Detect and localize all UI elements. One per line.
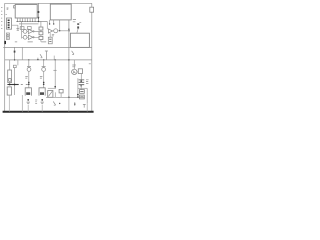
tick left border bbox=[6, 13, 7, 15]
wire x87 bbox=[86, 88, 88, 103]
wire opamp out bbox=[27, 31, 39, 37]
wire B3 stub bbox=[77, 29, 78, 33]
node dot B bbox=[38, 21, 40, 23]
resistor R2 bbox=[39, 32, 43, 35]
wire stub x22 bbox=[21, 47, 23, 60]
wire left border bbox=[4, 3, 6, 111]
pin 2 J1 bbox=[8, 22, 10, 24]
label t bbox=[83, 104, 86, 107]
pin 4 J1 bbox=[8, 27, 10, 29]
label q2 bbox=[25, 76, 28, 78]
wire mid vertical bus bbox=[68, 20, 70, 97]
transistor Q6 tick bbox=[13, 65, 16, 67]
connector J1 bbox=[7, 18, 12, 29]
pins U1 bottom bbox=[18, 18, 35, 21]
resistor R3 bbox=[39, 36, 43, 39]
wire opamp feed bbox=[22, 21, 24, 38]
label 11 bbox=[73, 20, 81, 23]
resistor R8 bottom-left bbox=[7, 87, 11, 95]
lamp L1 bbox=[9, 60, 11, 70]
wire x22 low bbox=[21, 95, 23, 112]
node dot A bbox=[38, 11, 40, 13]
label q3 bbox=[40, 76, 43, 78]
label 4 bbox=[53, 101, 55, 105]
label J1 node bbox=[16, 29, 19, 31]
IC U1 bbox=[15, 5, 37, 19]
transistor M1 bars bbox=[79, 80, 85, 85]
pins U2 bottom bbox=[50, 20, 60, 31]
margin stamp 1 bbox=[6, 33, 9, 36]
wire y88 right bbox=[78, 87, 87, 89]
wire y88 bbox=[48, 87, 56, 89]
node dot C bbox=[68, 29, 69, 30]
wire x78 bbox=[77, 78, 79, 97]
wire J1 lead bbox=[12, 25, 18, 31]
block B3 bbox=[70, 33, 89, 47]
terminal T1 bbox=[45, 51, 48, 60]
wire dark bus 84 bbox=[7, 84, 18, 86]
wire cs down bbox=[28, 105, 42, 112]
stubs above y97 bbox=[54, 92, 56, 97]
label 12 dark bbox=[4, 41, 6, 44]
wire m1 down bbox=[80, 85, 82, 90]
wire x14 bbox=[14, 68, 16, 95]
current source CS2 bbox=[39, 88, 45, 96]
margin stamp 2 bbox=[6, 37, 9, 40]
current source CS1 bbox=[25, 88, 31, 96]
wire vcc drop bbox=[38, 3, 40, 21]
diode D1 box bbox=[48, 91, 53, 98]
wire bus low bbox=[68, 97, 70, 111]
symbol under CS2 bbox=[41, 99, 43, 101]
box F1 bbox=[20, 27, 24, 30]
label m1 bbox=[86, 80, 89, 84]
label 2 bbox=[77, 23, 79, 25]
label 10 bbox=[7, 8, 9, 9]
node dots rail y60 bbox=[14, 59, 15, 60]
node mark bbox=[14, 51, 16, 53]
wire bus2 under U1 bbox=[19, 23, 39, 25]
transistor Q4 bbox=[54, 60, 56, 70]
wire y97 bbox=[46, 96, 85, 98]
label 1 bbox=[40, 54, 42, 58]
wire amp input drop bbox=[46, 21, 48, 29]
ground bus bottom bbox=[3, 111, 94, 113]
resistor R1 bbox=[39, 27, 43, 30]
wire x18 stub bbox=[17, 60, 19, 66]
op-amp A2 bbox=[23, 35, 27, 39]
pin 1 J1 bbox=[8, 20, 10, 22]
transistor Q1 circle bbox=[54, 29, 58, 33]
wire mid divider bbox=[3, 46, 92, 48]
wire q5 out bbox=[77, 72, 81, 80]
wire right border bbox=[91, 3, 93, 111]
symbol under CS1 bbox=[27, 99, 29, 101]
transistor Q2 bbox=[27, 65, 31, 67]
pin 3 J1 bbox=[8, 24, 10, 26]
label 7 bbox=[72, 51, 74, 55]
stub x75 bbox=[74, 102, 76, 106]
wire horizontal rail y60 bbox=[5, 59, 92, 61]
wire resistor chain bbox=[40, 21, 42, 41]
label mid bbox=[35, 100, 37, 103]
transistor Q5 circle bbox=[73, 60, 75, 69]
transistor Q3 bbox=[42, 65, 46, 67]
wire bus under U1 bbox=[16, 20, 47, 22]
label row bbox=[15, 41, 46, 43]
wire divider drop left bbox=[14, 47, 16, 60]
wire Q1 out bbox=[58, 30, 69, 32]
resistor R10 on right border bbox=[90, 7, 94, 12]
pin tab U1 bbox=[14, 6, 16, 8]
stub node x38 bbox=[37, 58, 39, 60]
wire top rail bbox=[5, 2, 92, 4]
IC U2 bbox=[50, 4, 71, 20]
margin text marks bbox=[1, 8, 2, 29]
label 15 bbox=[52, 34, 54, 36]
op-amp A1 bbox=[23, 30, 27, 34]
device stack E1 bbox=[80, 90, 85, 94]
label q5 bbox=[72, 65, 76, 67]
op-amp A3 bbox=[48, 29, 52, 33]
device D2 bbox=[78, 69, 82, 74]
label 13 bbox=[89, 63, 91, 65]
wire stub x54 bbox=[53, 56, 55, 60]
box F2 bbox=[27, 27, 31, 30]
crystal Y1 bbox=[49, 33, 51, 37]
